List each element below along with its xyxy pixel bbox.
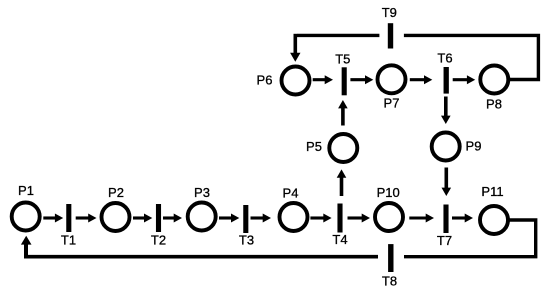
label T8 — [382, 274, 397, 289]
arrow T3 to P4 — [251, 214, 272, 223]
place P10 — [375, 203, 403, 231]
label P7 — [384, 95, 400, 110]
transition T1 — [66, 204, 71, 232]
svg-text:P5: P5 — [306, 139, 322, 154]
svg-text:P7: P7 — [384, 95, 400, 110]
label T2 — [151, 233, 166, 248]
arrow T4 up to P5 — [337, 169, 347, 196]
label P5 — [306, 139, 322, 154]
place P2 — [102, 203, 130, 231]
transition T4 — [337, 204, 342, 233]
wire T8 to P1 (bottom-left run and left riser) — [26, 243, 378, 257]
transition T2 — [156, 204, 161, 232]
label P6 — [257, 73, 273, 88]
arrow T1 to P2 — [76, 214, 97, 223]
svg-text:T8: T8 — [382, 274, 397, 289]
svg-text:T6: T6 — [437, 51, 452, 66]
label P1 — [18, 183, 34, 198]
label P3 — [194, 185, 210, 200]
svg-text:T5: T5 — [335, 52, 350, 67]
place P1 — [12, 203, 40, 231]
transition T5 — [342, 67, 347, 95]
arrow P3 to T3 — [219, 214, 239, 223]
transition T8 — [388, 244, 393, 272]
label T5 — [335, 52, 350, 67]
label P9 — [466, 139, 482, 154]
arrow T6 to P8 — [453, 75, 476, 84]
label T1 — [61, 233, 76, 248]
transition T6 — [444, 67, 449, 94]
svg-text:T1: T1 — [61, 233, 76, 248]
svg-text:P1: P1 — [18, 183, 34, 198]
svg-text:P6: P6 — [257, 73, 273, 88]
label T7 — [437, 233, 452, 248]
arrow P7 to T6 — [410, 75, 433, 84]
svg-text:T7: T7 — [437, 233, 452, 248]
label P10 — [377, 185, 400, 200]
place P11 — [480, 206, 508, 234]
arrow P4 to T4 — [310, 214, 331, 223]
arrow P10 to T7 — [409, 214, 434, 223]
arrow T2 to P3 — [163, 214, 182, 223]
label P8 — [486, 97, 502, 112]
arrow P5 up to T5 — [338, 100, 348, 126]
label T3 — [239, 233, 254, 248]
label P11 — [481, 184, 503, 199]
svg-text:P4: P4 — [283, 186, 299, 201]
svg-text:P11: P11 — [481, 184, 503, 199]
label P2 — [108, 185, 124, 200]
place P5 — [329, 134, 357, 162]
arrow P1 to T1 — [43, 214, 63, 223]
svg-text:T4: T4 — [332, 232, 347, 247]
svg-text:P8: P8 — [486, 97, 502, 112]
arrow T9-wire down into P6 — [290, 34, 300, 62]
arrow P2 to T2 — [133, 214, 152, 223]
transition T7 — [443, 205, 448, 234]
place P9 — [432, 133, 460, 161]
label T4 — [332, 232, 347, 247]
place P4 — [280, 203, 308, 231]
place P8 — [480, 66, 508, 94]
arrow T5 to P7 — [350, 75, 373, 84]
wire P8 to T9 (right riser and top-right run) — [404, 35, 539, 79]
arrow P9 down to T7 — [442, 168, 452, 197]
label T6 — [437, 51, 452, 66]
place P3 — [188, 203, 216, 231]
transition T9 — [388, 23, 393, 48]
place P7 — [378, 65, 406, 93]
place P6 — [282, 67, 310, 95]
svg-text:P3: P3 — [194, 185, 210, 200]
svg-text:T3: T3 — [239, 233, 254, 248]
arrow feedback up into P1 — [21, 236, 32, 255]
label T9 — [382, 5, 397, 20]
transition T3 — [243, 205, 248, 233]
svg-text:T2: T2 — [151, 233, 166, 248]
label P4 — [283, 186, 299, 201]
arrow P6 to T5 — [313, 75, 333, 84]
svg-text:P10: P10 — [377, 185, 400, 200]
wire T9 to P6 (top-left run) — [297, 34, 379, 37]
svg-text:P9: P9 — [466, 139, 482, 154]
arrow T4 to P10 — [348, 214, 371, 223]
svg-text:P2: P2 — [108, 185, 124, 200]
wire P11 to T8 (right riser and bottom-right run) — [404, 220, 536, 257]
arrow T7 to P11 — [452, 214, 473, 223]
svg-text:T9: T9 — [382, 5, 397, 20]
arrow T6 down to P9 — [441, 97, 451, 125]
